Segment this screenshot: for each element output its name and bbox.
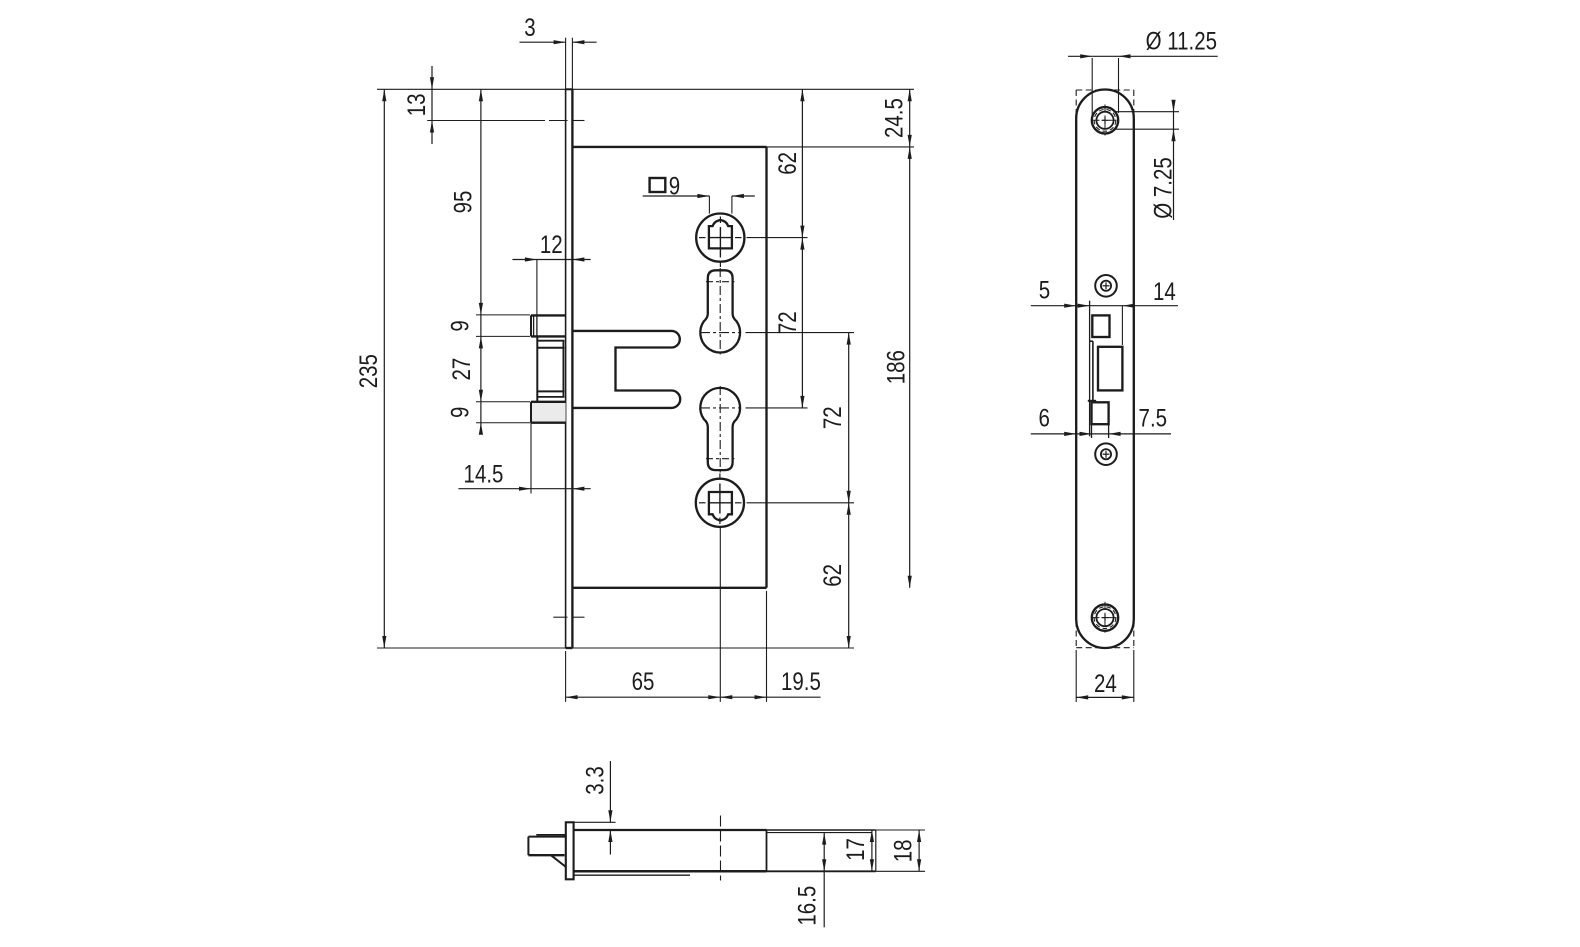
svg-text:62: 62 bbox=[773, 152, 801, 175]
svg-text:72: 72 bbox=[818, 406, 846, 429]
dim 65 arrow right bbox=[708, 695, 720, 699]
dim d11.25 arrow right bbox=[1119, 54, 1131, 58]
dim 7.5 arrow right bbox=[1109, 432, 1121, 436]
dim 72b arrow bottom bbox=[847, 491, 851, 503]
svg-text:24.5: 24.5 bbox=[880, 98, 908, 138]
dim 65 ext left bbox=[565, 651, 567, 702]
extension line from bottom follower center bbox=[747, 502, 855, 504]
dashed square end top r bbox=[1133, 90, 1135, 117]
dim 14.5 ext bbox=[530, 423, 532, 494]
dim sq9 ext right bbox=[731, 196, 733, 214]
cutout bottom strip l bbox=[1091, 424, 1093, 438]
dim 18 arrow top bbox=[917, 830, 921, 842]
top keyhole centerline v bbox=[719, 268, 721, 355]
svg-text:Ø 11.25: Ø 11.25 bbox=[1146, 27, 1217, 55]
dim 65 arrow left bbox=[566, 695, 578, 699]
svg-text:9: 9 bbox=[669, 172, 680, 200]
top follower centerline h dash l bbox=[699, 237, 706, 239]
cutout mid rect bbox=[1098, 347, 1122, 391]
svg-text:17: 17 bbox=[841, 838, 869, 861]
top screw inner bbox=[1096, 112, 1113, 129]
dim 3 ext left bbox=[565, 38, 567, 90]
dim 3 arrow left bbox=[554, 40, 566, 44]
dim 5 arrow bbox=[1064, 304, 1076, 308]
dim 95 arrow bottom bbox=[479, 303, 483, 315]
bottom follower centerline h main bbox=[710, 502, 732, 504]
dim 72a arrow bottom bbox=[800, 396, 804, 408]
latch head lower - bottom edge bbox=[531, 422, 566, 424]
top screw cross v bbox=[1104, 117, 1106, 124]
bottom screw centerline h bbox=[1092, 617, 1119, 619]
dim 12 arrow right bbox=[572, 257, 584, 261]
svg-text:19.5: 19.5 bbox=[781, 667, 821, 695]
dim 18 arrow bottom bbox=[917, 859, 921, 871]
extension line faceplate bottom bbox=[377, 647, 854, 649]
dim 14.5 arrow left bbox=[519, 487, 531, 491]
top screw outer bbox=[1092, 107, 1118, 133]
dim 14 arrow right bbox=[1122, 304, 1134, 308]
svg-text:13: 13 bbox=[402, 93, 430, 116]
svg-text:3: 3 bbox=[524, 13, 535, 41]
dim 3.3 arrow bottom bbox=[608, 830, 612, 842]
extension line from top keyhole center bbox=[746, 332, 855, 334]
bottom follower centerline v main bbox=[719, 484, 721, 514]
dim 3 ext right bbox=[571, 38, 573, 90]
dim 3.3 ref line bbox=[574, 821, 616, 823]
dim 3 line right bbox=[572, 41, 596, 43]
svg-text:16.5: 16.5 bbox=[793, 886, 821, 926]
mid screw cross h bbox=[1103, 285, 1110, 287]
latch head bottom edge bottom view bbox=[528, 854, 564, 856]
svg-text:186: 186 bbox=[881, 350, 909, 384]
dim 13 line bbox=[431, 66, 433, 144]
dim sq9 ext left bbox=[708, 196, 710, 214]
dim 235 arrow top bbox=[382, 89, 386, 101]
dim sq9 line left bbox=[643, 195, 710, 197]
top follower circle bbox=[696, 214, 744, 262]
ext latch line2 bbox=[476, 335, 530, 337]
extension case top right bbox=[767, 146, 915, 148]
top follower centerline h main bbox=[710, 237, 732, 239]
latch neck band lower line 1 bbox=[538, 390, 565, 392]
cutout bottom strip r bbox=[1108, 424, 1110, 438]
latch head lower - top edge bbox=[531, 401, 566, 403]
dim d7.25 ext top bbox=[1114, 111, 1180, 113]
dim 9a arrow bbox=[479, 336, 483, 348]
dim 16.5 arrow bottom bbox=[822, 859, 826, 871]
dim 19.5 ext right bbox=[766, 591, 768, 702]
faceplate bottom edge bbox=[566, 647, 573, 649]
screw centerline dash bottom a bbox=[553, 616, 567, 618]
mid screw outer bbox=[1095, 443, 1117, 465]
faceplate outline right view bbox=[1076, 89, 1134, 648]
dim sq9 arrow right bbox=[732, 194, 744, 198]
svg-text:24: 24 bbox=[1094, 669, 1117, 697]
dim 5/14 line bbox=[1031, 305, 1178, 307]
dashed square end top l bbox=[1075, 90, 1077, 117]
extension line from top follower center bbox=[747, 237, 808, 239]
top follower centerline v main bbox=[719, 227, 721, 258]
latch guide line through head bbox=[536, 315, 538, 336]
cutout top square bbox=[1092, 315, 1109, 337]
latch head upper - bottom edge bbox=[531, 335, 566, 337]
dim 3 line left bbox=[520, 41, 566, 43]
svg-text:9: 9 bbox=[446, 320, 474, 331]
dim 186 arrow top bbox=[908, 147, 912, 159]
dim 13 arrow top bbox=[430, 77, 434, 89]
top screw cross h bbox=[1102, 119, 1109, 121]
square symbol bbox=[650, 178, 666, 192]
dim 24 line bbox=[1076, 696, 1134, 698]
latch head left edge bottom view bbox=[527, 837, 529, 856]
dim 24.5 arrow top bbox=[908, 89, 912, 101]
top follower centerline h dash r bbox=[735, 237, 742, 239]
extension line faceplate top bbox=[377, 88, 914, 90]
dim 3.3 line lower bbox=[609, 830, 611, 855]
lower thin line bottom view bbox=[574, 874, 690, 876]
dim sq9 line right bbox=[732, 195, 755, 197]
top follower square hole with spring crown bbox=[709, 220, 732, 249]
dim d7.25 arrow top bbox=[1171, 100, 1175, 112]
case bottom edge bottom view bbox=[574, 870, 767, 873]
bottom screw inner bbox=[1096, 609, 1113, 626]
ext latch line3 bbox=[476, 401, 530, 403]
latch head upper - left edge bbox=[530, 315, 532, 336]
bottom follower centerline h dash l bbox=[699, 502, 706, 504]
top screw centerline v bbox=[1104, 105, 1106, 137]
mid screw cross h bbox=[1103, 453, 1110, 455]
dim 24 arrow right bbox=[1122, 695, 1134, 699]
dim d7.25 arrow bottom bbox=[1171, 129, 1175, 141]
case top edge right part bbox=[767, 829, 876, 831]
bottom screw outer bbox=[1092, 604, 1118, 630]
case inner top line bbox=[767, 832, 872, 834]
dim 14.5 line bbox=[458, 488, 590, 490]
dim 24 arrow left bbox=[1076, 695, 1088, 699]
dim 13 ref line bbox=[427, 120, 545, 122]
strip top cap bbox=[1090, 340, 1093, 342]
dim 16.5 arrow top bbox=[822, 833, 826, 845]
bottom follower square hole with spring crown bbox=[709, 492, 732, 521]
svg-text:12: 12 bbox=[540, 230, 563, 258]
dim 3.3 line upper bbox=[609, 761, 611, 822]
top follower centerline v dash t bbox=[719, 217, 721, 224]
dim 62b arrow bottom bbox=[847, 636, 851, 648]
dim 19.5 arrow right bbox=[755, 695, 767, 699]
svg-text:5: 5 bbox=[1039, 276, 1050, 304]
dim 14.5 arrow right bbox=[572, 487, 584, 491]
dashed square end bottom r bbox=[1133, 621, 1135, 648]
bottom euro-profile cylinder hole bbox=[700, 388, 740, 470]
bottom keyhole cap centerline h bbox=[706, 458, 734, 460]
dim 17 line bbox=[871, 830, 873, 871]
dim 24 ext left bbox=[1075, 650, 1077, 702]
bottom follower circle bbox=[696, 479, 744, 527]
fork / bolt staple bbox=[572, 331, 680, 408]
latch head lower - left edge bbox=[530, 402, 532, 423]
svg-text:95: 95 bbox=[449, 191, 477, 214]
dashed square end top h bbox=[1076, 89, 1134, 91]
bottom follower centerline h dash r bbox=[735, 502, 742, 504]
dim 72b arrow top bbox=[847, 333, 851, 345]
dim 6 arrow bbox=[1064, 432, 1076, 436]
dashed square end bottom l bbox=[1075, 621, 1077, 648]
cutout bottom square bbox=[1092, 402, 1109, 424]
latch head upper - top edge bbox=[531, 314, 566, 316]
strip right edge bbox=[1092, 341, 1094, 400]
dim 24.5/186 line bbox=[909, 89, 911, 588]
latch head upper - inner line bbox=[533, 315, 535, 336]
vertical centerline extension to bottom dims bbox=[719, 527, 721, 702]
screw centerline dash bottom b bbox=[572, 616, 585, 618]
case right end bottom view bbox=[875, 830, 877, 871]
dim 24.5 arrow bottom bbox=[908, 135, 912, 147]
dim 3 arrow right bbox=[572, 40, 584, 44]
dim 17 arrow bottom bbox=[870, 859, 874, 871]
dashed square end bottom h bbox=[1076, 647, 1134, 649]
dim 17 arrow top bbox=[870, 830, 874, 842]
dim 18 line bbox=[918, 830, 920, 871]
svg-text:62: 62 bbox=[818, 564, 846, 587]
screw centerline dash top b bbox=[572, 120, 585, 122]
bottom screw dashed circle bbox=[1094, 607, 1116, 629]
bottom keyhole centerline v bbox=[719, 386, 721, 473]
bottom keyhole bulb centerline h bbox=[700, 407, 741, 409]
dim 24 ext right bbox=[1133, 650, 1135, 702]
svg-text:9: 9 bbox=[446, 407, 474, 418]
dim d11.25 line right bbox=[1092, 55, 1218, 57]
dim d7.25 ext bottom bbox=[1114, 128, 1180, 130]
lock case right edge bbox=[765, 147, 767, 588]
center dashed line bottom view bbox=[720, 816, 722, 881]
dim 13 arrow bottom bbox=[430, 121, 434, 133]
dim 62b arrow top bbox=[847, 503, 851, 515]
bottom screw centerline v bbox=[1104, 602, 1106, 634]
bottom follower centerline v dash t bbox=[719, 474, 721, 480]
dim 18 ext bottom bbox=[876, 870, 925, 872]
screw centerline dash top a bbox=[549, 120, 568, 122]
dim d11.25 ext right bbox=[1118, 58, 1120, 113]
dim 3.3 arrow top bbox=[608, 810, 612, 822]
top euro-profile cylinder hole bbox=[700, 270, 740, 352]
dim 14 arrow left bbox=[1078, 304, 1090, 308]
ext latch top bbox=[476, 314, 530, 316]
svg-text:72: 72 bbox=[773, 311, 801, 334]
latch mid body left edge bbox=[536, 336, 538, 401]
svg-text:7.5: 7.5 bbox=[1139, 404, 1167, 432]
dim 18 ext top bbox=[876, 829, 925, 831]
dim 62a arrow top bbox=[800, 89, 804, 101]
strip bottom cap bbox=[1088, 400, 1096, 402]
svg-text:Ø 7.25: Ø 7.25 bbox=[1149, 157, 1177, 219]
svg-text:14: 14 bbox=[1153, 277, 1176, 305]
mid screw inner bbox=[1101, 449, 1111, 459]
bottom screw cross v bbox=[1104, 614, 1106, 621]
mid screw outer bbox=[1095, 275, 1117, 297]
dim 27 arrow bottom bbox=[479, 390, 483, 402]
dim 9b arrow bbox=[479, 423, 483, 435]
svg-text:65: 65 bbox=[632, 667, 655, 695]
ext latch bottom bbox=[476, 422, 530, 424]
top screw dashed circle bbox=[1094, 109, 1116, 131]
latch neck band lower line 2 bbox=[538, 396, 565, 398]
dim 12 arrow left bbox=[525, 257, 537, 261]
dim d7.25 line bbox=[1173, 101, 1175, 220]
latch neck band upper line 1 bbox=[538, 340, 565, 342]
case divider bottom view bbox=[766, 830, 768, 871]
dim 72/62 line 2 bbox=[848, 333, 850, 648]
faceplate top edge bbox=[566, 88, 573, 90]
dim 14 ext right bbox=[1121, 306, 1123, 345]
dim d11.25 arrow left bbox=[1080, 54, 1092, 58]
svg-text:235: 235 bbox=[354, 354, 382, 388]
dim 95/9/27/9 line bbox=[480, 89, 482, 434]
cutout left long edge bbox=[1089, 301, 1091, 437]
dim 12 ext bbox=[536, 260, 538, 316]
dim 62a arrow bottom bbox=[800, 226, 804, 238]
dim 7.5 arrow left bbox=[1080, 432, 1092, 436]
faceplate bar bottom view bbox=[566, 822, 574, 879]
svg-text:14.5: 14.5 bbox=[464, 460, 504, 488]
top follower centerline v dash b bbox=[719, 261, 721, 267]
dim 19.5 arrow left bbox=[720, 695, 732, 699]
top keyhole bulb centerline h bbox=[700, 332, 741, 334]
top screw centerline h bbox=[1092, 119, 1119, 121]
faceplate back edge / case left (main view) bbox=[571, 89, 573, 648]
svg-text:27: 27 bbox=[447, 358, 475, 381]
latch head top edge bottom view bbox=[528, 836, 565, 838]
dim sq9 arrow left bbox=[697, 194, 709, 198]
dim 95 arrow top bbox=[479, 89, 483, 101]
top keyhole cap centerline h bbox=[706, 281, 734, 283]
dim 62/72 line 1 bbox=[801, 89, 803, 408]
dim d11.25 ext left bbox=[1091, 58, 1093, 118]
bottom screw cross h bbox=[1102, 617, 1109, 619]
latch mid body inner right line bbox=[562, 341, 564, 397]
faceplate front edge (main view) bbox=[565, 89, 567, 648]
dim 235 arrow bottom bbox=[382, 636, 386, 648]
latch head lower fill bbox=[531, 402, 566, 423]
dim 235 line bbox=[383, 89, 385, 648]
dim d11.25 line left bbox=[1068, 55, 1092, 57]
case bottom edge right part bbox=[767, 870, 876, 872]
dim 16.5 line bbox=[823, 833, 825, 928]
svg-text:3.3: 3.3 bbox=[580, 766, 608, 794]
dim 186 arrow bottom bbox=[908, 576, 912, 588]
dim 12 line bbox=[512, 259, 590, 261]
dim 65/19.5 line bbox=[566, 696, 821, 698]
case top edge bottom view bbox=[574, 829, 767, 831]
lock case bottom edge bbox=[572, 587, 766, 589]
extension line from bottom keyhole center bbox=[746, 407, 808, 409]
latch bevel diagonal bbox=[551, 855, 566, 867]
mid screw cross v bbox=[1105, 451, 1107, 458]
svg-text:6: 6 bbox=[1038, 404, 1049, 432]
dim 6/7.5 line bbox=[1031, 433, 1171, 435]
dim 72a arrow top bbox=[800, 238, 804, 250]
svg-text:18: 18 bbox=[888, 839, 916, 862]
bottom follower centerline v dash b bbox=[719, 518, 721, 525]
latch neck band upper line 2 bbox=[538, 347, 565, 349]
latch head upper line bottom view bbox=[536, 834, 566, 836]
lock case top edge bbox=[572, 146, 766, 148]
mid screw inner bbox=[1101, 281, 1111, 291]
mid screw cross v bbox=[1105, 282, 1107, 289]
